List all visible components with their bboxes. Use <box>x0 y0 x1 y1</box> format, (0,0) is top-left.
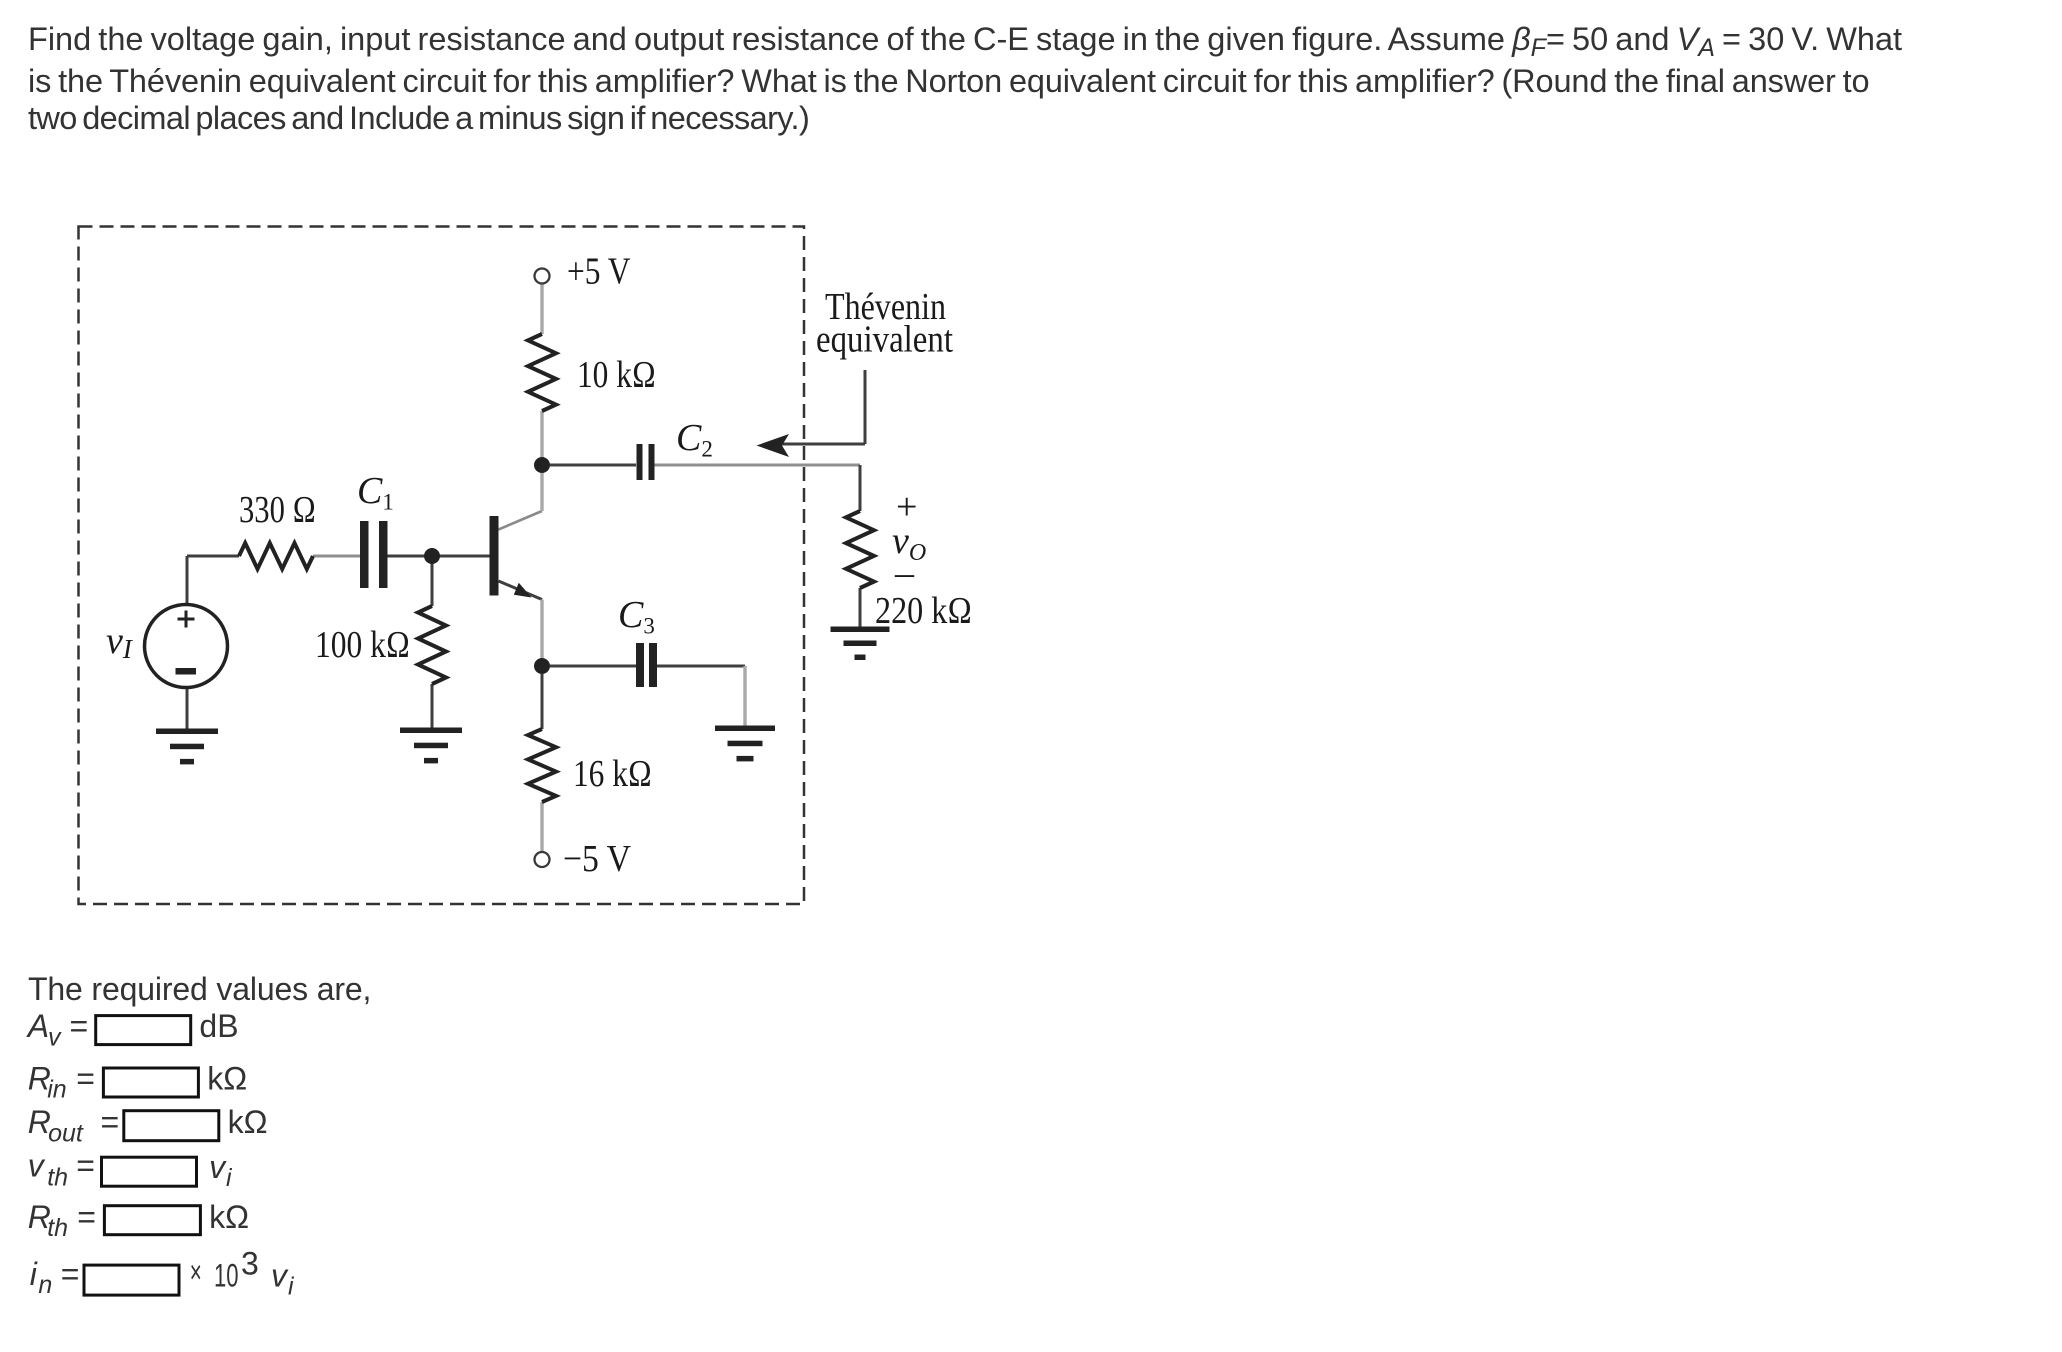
svg-text:10: 10 <box>214 1257 239 1293</box>
svg-text:kΩ: kΩ <box>207 1060 247 1096</box>
svg-text:+5 V: +5 V <box>567 251 631 293</box>
svg-text:=: = <box>77 1199 96 1235</box>
svg-text:v: v <box>48 1024 62 1052</box>
svg-text:330 Ω: 330 Ω <box>239 489 316 531</box>
svg-text:kΩ: kΩ <box>209 1199 249 1235</box>
svg-text:v: v <box>209 1149 227 1185</box>
svg-text:v: v <box>271 1257 289 1293</box>
svg-text:16 kΩ: 16 kΩ <box>573 753 652 795</box>
svg-text:i: i <box>30 1256 38 1292</box>
svg-text:v: v <box>28 1148 46 1184</box>
svg-text:=: = <box>76 1060 95 1096</box>
svg-text:=: = <box>70 1008 89 1044</box>
svg-text:Find the voltage gain, input r: Find the voltage gain, input resistance … <box>28 21 1902 62</box>
svg-text:n: n <box>38 1271 52 1299</box>
svg-text:–: – <box>894 552 915 594</box>
svg-text:−5 V: −5 V <box>563 838 631 880</box>
svg-text:equivalent: equivalent <box>816 319 953 361</box>
svg-text:th: th <box>47 1214 68 1242</box>
svg-text:×: × <box>190 1254 202 1290</box>
svg-text:A: A <box>26 1008 49 1044</box>
svg-text:kΩ: kΩ <box>228 1104 268 1140</box>
svg-text:220 kΩ: 220 kΩ <box>875 590 972 632</box>
svg-text:100 kΩ: 100 kΩ <box>315 624 410 666</box>
svg-text:is the Thévenin equivalent cir: is the Thévenin equivalent circuit for t… <box>28 63 1869 99</box>
svg-text:=: = <box>76 1148 95 1184</box>
svg-text:=: = <box>101 1104 120 1140</box>
svg-text:10 kΩ: 10 kΩ <box>577 354 656 396</box>
svg-text:out: out <box>48 1120 84 1148</box>
svg-text:two decimal places and Include: two decimal places and Include a minus s… <box>28 100 809 136</box>
svg-text:3: 3 <box>241 1246 259 1282</box>
svg-text:The required values are,: The required values are, <box>28 971 371 1007</box>
svg-text:th: th <box>47 1163 68 1191</box>
svg-text:dB: dB <box>199 1008 238 1044</box>
svg-text:in: in <box>47 1075 66 1103</box>
svg-text:=: = <box>61 1256 80 1292</box>
